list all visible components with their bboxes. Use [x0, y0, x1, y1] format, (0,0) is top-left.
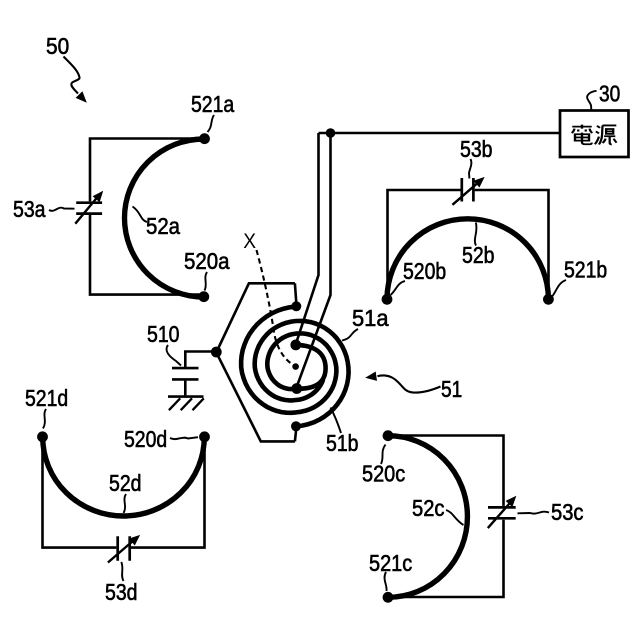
wire: 510 to ground [184, 381, 187, 396]
ground symbol [168, 395, 204, 398]
leader 53b [469, 159, 471, 179]
leader 510 [167, 345, 181, 366]
svg-text:521d: 521d [25, 385, 68, 411]
leader 52c [446, 510, 464, 525]
wire: hexagonal plate outline [216, 283, 295, 441]
wire: rectangle wiring of resonator 52d [43, 437, 117, 548]
wire: main feed wire from power box [319, 132, 561, 135]
leader 521a [208, 115, 215, 132]
wire: stub to coil outer end top [295, 283, 296, 303]
wire: rectangle wiring of resonator 52c [390, 436, 504, 506]
terminal dot 520d [199, 431, 210, 442]
kanji 源 (hand-drawn strokes) [595, 125, 617, 144]
svg-text:53b: 53b [460, 136, 493, 162]
wire: rectangle wiring of resonator 52b [388, 190, 461, 299]
leader 30 [587, 91, 596, 111]
svg-text:520a: 520a [184, 248, 230, 274]
svg-text:52d: 52d [109, 470, 142, 496]
terminal dot 520a [198, 291, 209, 302]
svg-text:30: 30 [599, 81, 620, 107]
svg-text:50: 50 [46, 33, 69, 59]
junction node [326, 128, 336, 138]
wire: feed line to inner coil end 51a [297, 133, 319, 342]
node: coil outer end (top) [291, 301, 301, 311]
power source box U30 (電源) [560, 111, 629, 158]
terminal dot 520b [382, 294, 393, 305]
svg-text:51a: 51a [352, 305, 389, 331]
svg-text:51: 51 [441, 376, 462, 402]
svg-text:521c: 521c [369, 550, 412, 576]
node: coil outer end 51b (bottom) [291, 421, 301, 431]
svg-text:521b: 521b [564, 257, 607, 283]
node: coil inner end [291, 383, 302, 394]
svg-text:53c: 53c [551, 499, 584, 525]
node: coil axis point [292, 363, 299, 370]
wire: 510 capacitor lead [185, 352, 216, 368]
wire [90, 215, 202, 295]
leader 51a [342, 329, 358, 341]
svg-text:52b: 52b [462, 242, 495, 268]
leader 51b [331, 408, 342, 434]
resonator arc 52a [124, 139, 204, 297]
capacitor 53a arrow [75, 197, 97, 224]
capacitor 53a (variable) plates [76, 203, 102, 214]
kanji 電 (hand-drawn strokes) [572, 125, 593, 145]
leader 520d [170, 437, 198, 439]
terminal dot 521a [199, 133, 210, 144]
leader arrow 51 [378, 375, 441, 392]
wire: rectangle wiring of resonator 52a [90, 139, 202, 202]
leader arrow for 50 [64, 57, 80, 94]
leader 53a [49, 208, 75, 211]
svg-text:53d: 53d [105, 579, 138, 605]
wire [390, 520, 504, 597]
svg-text:521a: 521a [191, 91, 234, 117]
dashed axis line X [257, 250, 293, 364]
resonator arc 52d [43, 437, 205, 516]
wire [131, 437, 205, 548]
capacitor 53b arrow [452, 183, 478, 205]
svg-text:52c: 52c [412, 495, 445, 521]
node: plate terminal for 510 [211, 347, 222, 358]
resonator arc 52b [387, 219, 548, 299]
terminal dot 521d [37, 431, 48, 442]
leader 520b [391, 281, 406, 295]
coil 51 inner C turn [296, 345, 326, 389]
resonator arc 52c [388, 436, 467, 598]
leader 52d [124, 494, 127, 513]
capacitor 53c (variable) plates [488, 507, 516, 518]
capacitor 53c arrow [488, 503, 511, 528]
terminal dot 520c [383, 430, 394, 441]
leader 521b [553, 280, 567, 296]
capacitor 510 plates [172, 368, 199, 379]
capacitor 53b (variable) plates [462, 178, 474, 202]
leader 52b [475, 223, 477, 246]
wire [475, 190, 549, 299]
svg-text:520b: 520b [403, 258, 446, 284]
terminal dot 521b [543, 294, 554, 305]
coil 51 spiral arm (outer end bottom) [255, 321, 349, 427]
leader 53c [518, 512, 550, 514]
coil 51 spiral arm (outer end top) [241, 307, 336, 413]
leader 521c [385, 572, 387, 591]
leader 52a [133, 207, 148, 223]
svg-text:52a: 52a [146, 213, 180, 239]
terminal dot 521c [383, 592, 394, 603]
wire: feed line to coil end [297, 133, 331, 386]
capacitor 53d arrow [108, 541, 134, 563]
svg-text:510: 510 [147, 321, 180, 347]
leader 520a [205, 272, 208, 291]
svg-text:520d: 520d [124, 426, 167, 452]
svg-text:51b: 51b [326, 430, 359, 456]
leader 520c [381, 445, 386, 465]
svg-text:520c: 520c [362, 461, 405, 487]
leader 521d [43, 409, 46, 429]
capacitor 53d (variable) plates [118, 536, 130, 560]
svg-text:X: X [243, 229, 256, 253]
svg-text:53a: 53a [13, 196, 46, 222]
wire: stub to coil outer end bottom [295, 429, 296, 441]
leader 53d [121, 562, 123, 581]
node: coil inner end 51a [290, 340, 301, 351]
